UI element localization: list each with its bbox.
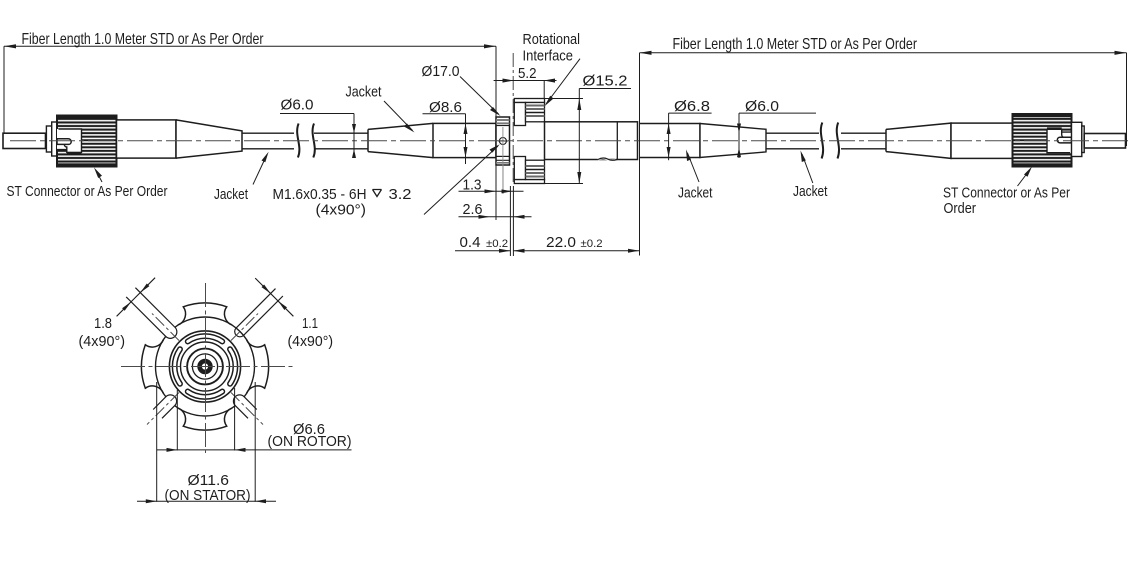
dimension: 0.4 gap [455,249,525,253]
svg-text:22.0: 22.0 [546,234,576,251]
wire: right cable segment a [766,133,819,149]
wire: front view vertical centerline [205,283,207,453]
svg-text:Ø6.0: Ø6.0 [281,97,314,114]
part: stator base circle [156,317,255,416]
part: left barrel [117,120,177,158]
svg-text:Jacket: Jacket [346,84,383,101]
label: dia 17.0 with leader [422,63,501,116]
dimension: 22.0 [513,249,639,253]
label: jacket right2 with leader [793,151,828,201]
part: rotor shaft [545,122,638,161]
SECTION: right connector [640,114,1126,167]
part: left jacket taper [368,123,433,157]
part: right knurled cap ST [1013,114,1072,167]
wire: main horizontal centerline [10,140,1128,142]
svg-text:1.8: 1.8 [94,315,112,332]
wire: diagonal centerline lower left [147,393,179,425]
part: left rear step small [46,126,51,152]
part: inner ring r24.5 [181,342,230,391]
part: stator lug bottom [178,408,232,430]
label: M1.6 thread callout with leader [273,144,500,218]
part: left knurled cap ST [57,116,117,167]
dimension: fiber length left [4,44,496,133]
part: key slot upper left [126,288,177,339]
wire: right cable segment b [841,133,886,149]
svg-text:(ON STATOR): (ON STATOR) [165,487,251,504]
svg-text:Ø15.2: Ø15.2 [583,73,628,90]
svg-text:0.4: 0.4 [460,234,481,251]
dimension: fiber length right [640,51,1127,256]
part: stator lug left [141,340,163,394]
dimension: dia 11.6 on stator [137,382,276,504]
svg-text:(4x90°): (4x90°) [288,333,334,350]
extension line: flange left face below [495,165,497,220]
svg-text:2.6: 2.6 [463,201,483,218]
part: left rear step tall [52,122,57,156]
svg-text:Ø17.0: Ø17.0 [422,63,460,80]
label: ST connector right with leader [943,167,1070,218]
svg-text:(4x90°): (4x90°) [316,201,367,218]
svg-text:5.2: 5.2 [518,65,537,82]
dimension: 1.3 [459,189,524,193]
extension line: pilot plane gray [502,165,504,194]
svg-text:Interface: Interface [523,48,574,65]
label: ST connector left with leader [7,168,168,201]
svg-text:Order: Order [944,200,977,217]
dimension: dia 6.0 right [737,113,816,158]
extension line: flange right face below [509,186,511,256]
part: right barrel [951,123,1013,158]
wire: left cable segment a [242,133,294,149]
part: key slot lower left [153,395,176,418]
wire: diagonal centerline lower right [231,393,263,425]
dimension: dia 6.0 left [280,114,356,159]
dimension: 2.6 [459,215,532,219]
part: stator lug top [178,303,232,325]
part: right rear step small [1082,126,1084,153]
wire: diagonal centerline upper left [152,314,179,341]
dimension: dia 6.8 [667,113,712,160]
svg-text:ST Connector or As Per Order: ST Connector or As Per Order [7,183,168,200]
wire: joint vertical centerline [512,53,514,185]
part: right boot cone [886,123,951,158]
part: right rear step tall [1072,122,1082,156]
part: right cap bayonet cutout [1047,129,1072,153]
svg-text:ST Connector or As Per: ST Connector or As Per [943,184,1070,201]
svg-text:Fiber Length 1.0 Meter STD or: Fiber Length 1.0 Meter STD or As Per Ord… [22,31,265,48]
part: bayonet groove arc right [228,347,238,386]
part: bayonet groove arc bottom [186,389,225,399]
wire: left cable segment b [314,133,368,149]
svg-text:±0.2: ±0.2 [581,238,603,250]
part: cable break marks right [821,123,839,159]
label: 0.4 text [460,234,509,251]
part: ferrule dark ring [200,361,211,372]
SECTION: side view left [3,116,496,167]
dimension: dia 6.6 on rotor [157,388,352,452]
dimension: 5.2 [494,79,557,99]
dimension: 1.8 slot width [79,278,156,350]
label: 22.0 text [546,234,603,251]
part: rotor hub top [514,99,544,126]
SECTION: front view [79,278,352,504]
part: key slot upper right [235,289,283,337]
wire: diagonal centerline upper right [231,314,258,341]
node: flange pilot hole target [498,127,508,194]
part: left cap bayonet cutout [57,129,82,153]
svg-text:Jacket: Jacket [678,184,713,201]
SECTION: middle joint [496,53,638,194]
part: right jacket tube dia 6.8 [640,124,701,158]
part: stator flange dia 17 [496,117,510,165]
label: jacket left with leader [214,152,269,203]
part: left ferrule [3,133,46,148]
part: key slot lower right [233,395,256,418]
part: right ferrule [1084,134,1125,149]
part: inner ring r13.4 [192,354,217,379]
part: left boot cone [176,120,242,158]
label: jacket right1 with leader [678,150,713,202]
svg-text:±0.2: ±0.2 [486,238,508,250]
part: stator lug right [247,340,269,394]
dimension: dia 8.6 [423,114,468,164]
part: bayonet groove arc top [186,334,225,344]
svg-text:1.3: 1.3 [463,177,482,194]
svg-text:Ø6.0: Ø6.0 [745,98,779,115]
part: cable break marks left [297,124,315,158]
part: rotor outer circle [169,331,240,402]
dimension: dia 15.2 [545,89,632,184]
SECTION: dimensions top [4,31,1127,256]
label: jacket mid with leader [346,84,415,133]
part: right jacket taper [700,124,766,158]
part: left barrel dia 8.6 [433,123,496,157]
svg-text:Jacket: Jacket [214,186,249,203]
wire: front view horizontal centerline [121,366,293,368]
svg-text:(ON ROTOR): (ON ROTOR) [268,433,352,450]
svg-text:Rotational: Rotational [523,31,581,48]
svg-text:Fiber Length 1.0 Meter STD or: Fiber Length 1.0 Meter STD or As Per Ord… [673,36,918,53]
dimension: 1.1 slot width [255,278,333,350]
svg-text:Ø6.8: Ø6.8 [674,98,710,115]
extension line: hub left face below [512,186,514,256]
svg-text:1.1: 1.1 [302,315,318,332]
svg-text:Ø8.6: Ø8.6 [429,99,462,116]
label: rotational interface [523,31,581,106]
part: bayonet groove arc left [172,347,182,386]
part: rotor hub bottom [514,157,544,184]
part: inner ring r17 [187,349,223,385]
svg-text:(4x90°): (4x90°) [79,333,126,350]
svg-text:Jacket: Jacket [793,183,828,200]
svg-text:3.2: 3.2 [389,186,412,203]
